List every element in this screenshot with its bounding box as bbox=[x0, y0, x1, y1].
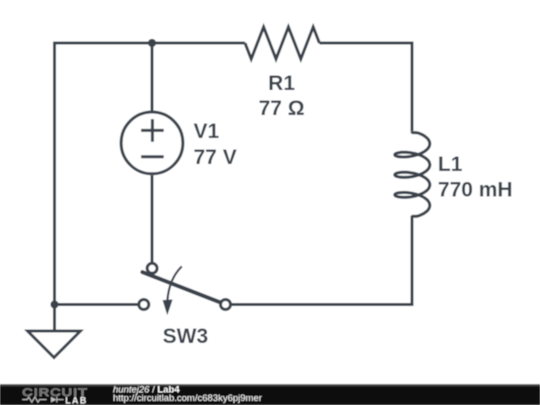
footer logo diode triangle bbox=[51, 397, 57, 403]
footer logo squiggle resistor-diode glyph bbox=[22, 397, 63, 403]
wire bottom right (corner to switch right terminal) bbox=[230, 303, 413, 306]
V1 plus sign bbox=[141, 119, 164, 142]
wire V1 bottom (source to switch common) bbox=[151, 175, 154, 263]
wire bottom left (switch left terminal to ground node) bbox=[55, 303, 139, 306]
footer black bar bbox=[0, 384, 540, 405]
wire top-left horizontal (node A to left rail) bbox=[55, 42, 153, 45]
wire top middle (node A to resistor) bbox=[152, 42, 245, 45]
wire top right (resistor to corner) bbox=[319, 42, 412, 45]
switch SW3 right throw terminal circle bbox=[221, 300, 231, 310]
svg-text:V1: V1 bbox=[194, 120, 220, 143]
node A junction dot bbox=[148, 39, 156, 47]
wire V1 top (node A to source) bbox=[151, 43, 154, 111]
svg-text:L1: L1 bbox=[438, 153, 463, 176]
svg-text:770 mH: 770 mH bbox=[438, 178, 513, 201]
wire right vertical lower (inductor to bottom corner) bbox=[411, 216, 414, 306]
V1 minus sign bbox=[141, 155, 164, 158]
switch SW3 left throw terminal circle bbox=[139, 300, 149, 310]
wire right vertical upper (corner to inductor) bbox=[411, 42, 414, 132]
voltage source V1 circle bbox=[121, 112, 183, 174]
svg-text:SW3: SW3 bbox=[163, 325, 209, 348]
svg-text:77 Ω: 77 Ω bbox=[259, 97, 305, 120]
ground symbol triangle bbox=[28, 331, 81, 358]
switch SW3 common terminal circle bbox=[147, 263, 157, 273]
svg-text:LAB: LAB bbox=[65, 395, 88, 405]
svg-text:http://circuitlab.com/c683ky6p: http://circuitlab.com/c683ky6pj9mer bbox=[113, 393, 262, 404]
svg-text:R1: R1 bbox=[268, 72, 295, 95]
wire left vertical rail bbox=[53, 42, 56, 305]
inductor L1 coil bbox=[395, 131, 430, 217]
ground wire stub bbox=[53, 305, 56, 332]
switch SW3 actuation arc arrow bbox=[167, 266, 181, 300]
svg-text:77 V: 77 V bbox=[194, 146, 237, 169]
switch SW3 lever bbox=[142, 272, 220, 303]
node B ground junction dot bbox=[51, 301, 59, 309]
resistor R1 zigzag bbox=[245, 27, 319, 59]
